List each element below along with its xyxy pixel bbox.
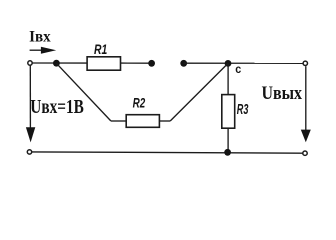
wire top 1 [32,62,87,64]
svg-text:R3: R3 [237,101,249,118]
terminal input top [28,61,32,65]
wire bottom [32,152,303,153]
node D (open end right of gap) [180,60,187,67]
wire diagonal A to R2 [56,63,110,121]
terminal input bottom [27,150,31,154]
svg-text:c: c [235,62,241,76]
wire top 3 [184,62,303,64]
node c junction [225,60,232,67]
terminal output top [303,61,307,65]
svg-text:Uвх=1В: Uвх=1В [30,96,84,118]
wire diagonal R2 to node c [170,63,228,121]
resistor R1 [87,57,120,70]
wire right vertical (Uвых) [305,66,307,130]
arrowhead Uвх down [26,127,35,142]
wire R3 to bottom [227,128,229,153]
wire stub R2 left [111,120,126,122]
svg-text:R2: R2 [133,94,146,110]
node bottom junction [224,149,231,156]
wire top 2 [121,62,152,64]
wire left vertical (Uвх) [29,65,31,128]
resistor R3 [222,95,235,129]
resistor R2 [126,115,159,128]
arrowhead Uвых down [301,130,311,143]
node B (open end left of gap) [148,60,155,67]
arrow Iвх [30,47,57,54]
node A junction [53,60,60,67]
svg-text:R1: R1 [94,41,107,57]
wire node c to R3 [227,63,229,94]
terminal output bottom [303,151,307,155]
svg-text:Iвх: Iвх [29,28,51,45]
svg-text:Uвых: Uвых [262,83,303,104]
wire stub R2 right [159,120,170,122]
